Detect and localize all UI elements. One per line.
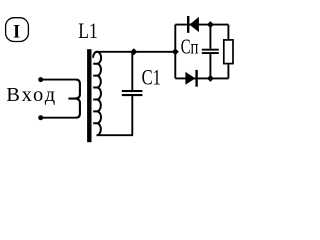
svg-text:L1: L1	[78, 19, 97, 43]
svg-text:Вход: Вход	[6, 84, 57, 106]
svg-text:Cп: Cп	[181, 35, 199, 58]
svg-text:C1: C1	[142, 67, 161, 91]
svg-text:I: I	[13, 22, 20, 42]
